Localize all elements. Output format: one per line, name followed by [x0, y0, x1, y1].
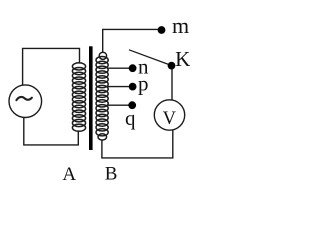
svg-text:m: m — [172, 13, 189, 38]
svg-text:K: K — [175, 47, 190, 71]
svg-text:p: p — [138, 72, 149, 96]
svg-text:q: q — [125, 106, 136, 130]
svg-text:B: B — [105, 164, 118, 185]
svg-text:V: V — [163, 109, 177, 129]
svg-text:A: A — [62, 164, 76, 185]
